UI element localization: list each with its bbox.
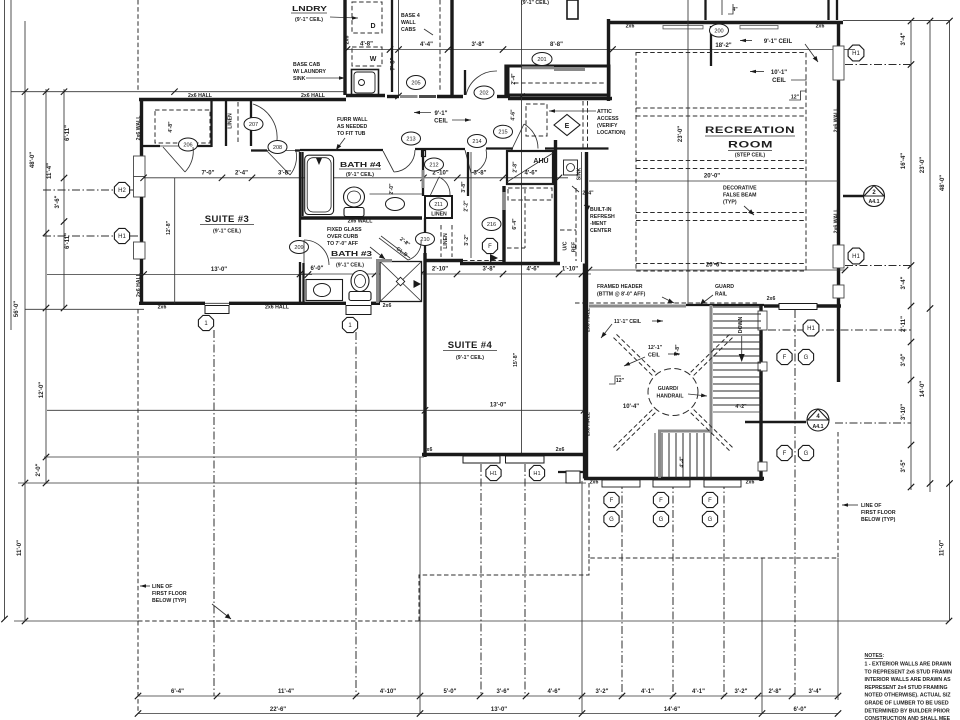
svg-text:FRAMED HEADER: FRAMED HEADER: [597, 284, 643, 290]
svg-text:2x6: 2x6: [424, 447, 433, 453]
svg-text:9'-1": 9'-1": [435, 111, 448, 117]
svg-text:1'-10": 1'-10": [562, 267, 578, 273]
svg-text:10'-1": 10'-1": [771, 70, 787, 76]
door 210 glass: [416, 233, 435, 246]
svg-text:LINE OF: LINE OF: [152, 584, 172, 590]
svg-text:TO 7'-0" AFF: TO 7'-0" AFF: [327, 241, 358, 247]
20-6 dim: [589, 269, 845, 271]
svg-text:2x6 HALL: 2x6 HALL: [586, 411, 592, 436]
svg-text:LINEN: LINEN: [443, 233, 449, 249]
grid line H1 left: [43, 235, 139, 237]
svg-text:2x6: 2x6: [746, 480, 755, 486]
svg-text:4'-6": 4'-6": [525, 171, 538, 177]
svg-text:201: 201: [537, 57, 546, 63]
laundry east wall: [391, 0, 393, 92]
bath3 vanity: [306, 280, 343, 301]
svg-text:2'-0": 2'-0": [389, 183, 395, 195]
svg-text:10'-4": 10'-4": [623, 404, 639, 410]
svg-text:OVER CURB: OVER CURB: [327, 234, 358, 240]
svg-text:REFRESH: REFRESH: [590, 214, 615, 220]
wall x497-508: [497, 95, 510, 98]
svg-text:BELOW (TYP): BELOW (TYP): [152, 598, 187, 604]
AHU closet: [507, 151, 553, 184]
bath3 dim chain y274: [300, 273, 591, 275]
WC stub: [422, 151, 426, 157]
door 215: [494, 125, 513, 138]
closet 206 south wall + door: [143, 145, 160, 147]
svg-text:20'-6": 20'-6": [706, 263, 722, 269]
svg-text:SINK: SINK: [577, 168, 583, 181]
svg-text:GUARD/: GUARD/: [658, 386, 679, 392]
svg-text:16'-4": 16'-4": [901, 153, 907, 169]
svg-text:4'-8": 4'-8": [360, 42, 373, 48]
bottom dim chain lower y714: [138, 713, 838, 715]
suite4/stair jog: [583, 457, 585, 479]
window right 2: [833, 245, 844, 268]
svg-text:TO REPRESENT 2x6 STUD FRAMIN: TO REPRESENT 2x6 STUD FRAMIN: [865, 669, 953, 675]
svg-text:RECREATION: RECREATION: [705, 125, 795, 136]
svg-text:FIRST FLOOR: FIRST FLOOR: [861, 510, 896, 516]
svg-text:H2: H2: [118, 188, 126, 194]
room202/closet wall: [504, 65, 506, 97]
svg-text:6'-0": 6'-0": [794, 707, 807, 713]
border line left: [4, 0, 6, 619]
door 214: [468, 135, 487, 148]
svg-text:202: 202: [479, 91, 488, 97]
dim vline x471: [470, 152, 472, 258]
svg-text:(9'-1" CEIL): (9'-1" CEIL): [295, 17, 323, 23]
door 209: [290, 241, 309, 254]
12'-8" inner dim: [174, 178, 176, 303]
tub: [301, 152, 303, 216]
svg-text:GRADE OF LUMBER TO BE USED: GRADE OF LUMBER TO BE USED: [865, 701, 949, 707]
svg-text:CONSTRUCTION AND SHALL MEE: CONSTRUCTION AND SHALL MEE: [865, 716, 951, 720]
svg-text:7'-0": 7'-0": [202, 171, 215, 177]
suite3 south wall: [139, 302, 205, 305]
svg-text:LINEN: LINEN: [228, 113, 234, 129]
svg-text:A4.1: A4.1: [813, 424, 824, 430]
svg-text:6'-11": 6'-11": [65, 233, 71, 249]
svg-text:F: F: [659, 498, 663, 504]
svg-text:11'-4": 11'-4": [278, 689, 294, 695]
closet 206: [155, 110, 210, 143]
svg-text:4'-10": 4'-10": [380, 689, 396, 695]
svg-text:TO FIT TUB: TO FIT TUB: [337, 131, 366, 137]
svg-text:9'-8": 9'-8": [675, 344, 681, 356]
svg-text:4'-4": 4'-4": [680, 456, 686, 468]
svg-text:13'-0": 13'-0": [490, 403, 506, 409]
H1 markers below suite4: [486, 465, 501, 480]
svg-text:200: 200: [714, 29, 723, 35]
svg-text:G: G: [609, 517, 614, 523]
door 212: [425, 158, 444, 171]
svg-text:210: 210: [420, 237, 429, 243]
suite4 south wall: [422, 453, 587, 456]
rec room ceiling dashed rect: [636, 53, 806, 272]
hall north wall y97.5-101: segments: [139, 98, 346, 101]
svg-text:216: 216: [487, 222, 496, 228]
stairs upper flight treads: [713, 306, 761, 308]
svg-text:F: F: [488, 244, 492, 250]
svg-text:2x6 WALL: 2x6 WALL: [348, 219, 374, 225]
svg-text:14'-6": 14'-6": [664, 707, 680, 713]
11'-4"/12'-0" dim line: [45, 89, 47, 484]
landing + lower flight: [658, 430, 711, 433]
56'-0" dim line: [10, 0, 12, 330]
svg-text:207: 207: [249, 122, 258, 128]
svg-text:WALL: WALL: [401, 20, 417, 26]
ceiling beams dashed: [636, 107, 806, 109]
svg-text:206: 206: [183, 143, 192, 149]
svg-text:HANDRAIL: HANDRAIL: [656, 394, 684, 400]
svg-text:(9'-1" CEIL): (9'-1" CEIL): [213, 229, 241, 235]
svg-text:ROOM: ROOM: [728, 140, 773, 151]
rec room west wall: [607, 19, 610, 101]
lobby walls around 210: [424, 218, 426, 258]
svg-text:BASE 4: BASE 4: [401, 13, 420, 19]
4/A4.1 triangle marker: [745, 421, 806, 424]
svg-text:3'-6": 3'-6": [55, 195, 61, 208]
suite3 east wall: [299, 152, 301, 237]
H1 grid line right top: [845, 64, 911, 66]
2/A4.1 triangle marker: [843, 195, 863, 198]
svg-text:H1: H1: [490, 471, 497, 477]
bath3 door threshold: [346, 306, 371, 315]
svg-text:212: 212: [429, 163, 438, 169]
svg-text:2x6 HALL: 2x6 HALL: [188, 93, 213, 99]
svg-text:211: 211: [434, 202, 442, 208]
grid dash-dot verticals bottom: [213, 330, 215, 696]
suite4 east wall: [583, 264, 586, 458]
right dim line x930 23'-0": [929, 21, 931, 492]
hall wall segment x252-300 with door 208: [251, 149, 267, 151]
svg-text:FALSE BEAM: FALSE BEAM: [723, 193, 756, 199]
svg-text:12'-8": 12'-8": [166, 220, 172, 235]
svg-text:A4.1: A4.1: [869, 199, 880, 205]
svg-text:H1: H1: [533, 471, 540, 477]
first floor below dashed vline x138: [137, 0, 139, 92]
flue at top: [567, 0, 578, 19]
closet 201 south wall already rect; hall wall to rec: [508, 97, 612, 100]
svg-text:DOWN: DOWN: [738, 317, 744, 334]
attic access dashed box: [526, 104, 547, 136]
svg-text:3'-10": 3'-10": [901, 404, 907, 420]
svg-text:4'-6": 4'-6": [548, 689, 561, 695]
window west B: [134, 242, 146, 259]
svg-text:213: 213: [406, 137, 415, 143]
svg-text:ACCESS: ACCESS: [597, 116, 619, 122]
svg-text:3'-2": 3'-2": [596, 689, 609, 695]
window west A: [134, 156, 146, 197]
right dim line x949 48'-0": [949, 21, 951, 621]
hall south wall to bath4: [300, 149, 383, 151]
svg-text:2x6 HALL: 2x6 HALL: [586, 307, 592, 332]
open-below X (dashed): [614, 338, 653, 376]
dryer D: [352, 2, 382, 33]
wall under sink: [346, 94, 385, 97]
svg-text:3'-2": 3'-2": [735, 689, 748, 695]
svg-text:LINEN: LINEN: [431, 212, 447, 218]
svg-text:14'-0": 14'-0": [920, 381, 926, 397]
svg-text:LNDRY: LNDRY: [292, 6, 327, 13]
svg-text:6'-0": 6'-0": [311, 266, 324, 272]
svg-text:48'-0": 48'-0": [940, 175, 946, 191]
svg-text:H1: H1: [118, 234, 126, 240]
svg-text:ATTIC: ATTIC: [597, 109, 612, 115]
door 213: [402, 132, 421, 145]
svg-text:GUARD: GUARD: [715, 284, 734, 290]
door threshold suite3: [205, 306, 229, 314]
svg-text:4'-6": 4'-6": [511, 109, 517, 121]
svg-text:23'-0": 23'-0": [920, 157, 926, 173]
wall x466-470 lobby east: [467, 152, 469, 196]
svg-text:LOCATION): LOCATION): [597, 130, 626, 136]
svg-text:4'-4": 4'-4": [420, 42, 433, 48]
svg-text:U/C: U/C: [563, 241, 569, 250]
extension line y457: [44, 456, 424, 458]
stair south wall: [584, 477, 764, 480]
svg-text:18'-2": 18'-2": [715, 43, 731, 49]
svg-text:(VERIFY: (VERIFY: [597, 123, 618, 129]
room 202 west wall: [450, 0, 453, 95]
rec room top wall: [608, 21, 843, 24]
stair hall west wall: [585, 152, 588, 479]
door 206 swing: [163, 147, 185, 172]
H1 grid line right mid: [845, 265, 911, 267]
svg-text:NOTED OTHERWISE). ACTUAL SIZ: NOTED OTHERWISE). ACTUAL SIZ: [865, 693, 952, 699]
svg-text:3'-8": 3'-8": [483, 267, 496, 273]
svg-text:CEIL: CEIL: [648, 353, 661, 359]
bath3 west wall: [302, 263, 304, 303]
shower: [380, 262, 422, 302]
svg-text:F: F: [610, 498, 614, 504]
svg-text:2x6 WALL: 2x6 WALL: [834, 107, 840, 133]
svg-text:2x6 HALL: 2x6 HALL: [265, 305, 290, 311]
bath4 vanity: [370, 193, 423, 195]
svg-text:2x6: 2x6: [345, 36, 351, 45]
door 208 swing: [267, 151, 290, 175]
svg-text:20'-0": 20'-0": [704, 174, 720, 180]
bath3 toilet: [351, 271, 369, 292]
E diamond: [554, 115, 580, 136]
svg-text:2x6 WALL: 2x6 WALL: [834, 208, 840, 234]
svg-text:BATH #4: BATH #4: [340, 162, 381, 169]
svg-text:RAIL: RAIL: [715, 292, 728, 298]
svg-text:2x6: 2x6: [816, 24, 825, 30]
svg-text:H1: H1: [852, 254, 860, 260]
F G pairs right of stairs: [777, 349, 792, 364]
extension verticals bottom: [419, 457, 421, 714]
svg-text:2'-8": 2'-8": [513, 161, 519, 173]
svg-text:SINK: SINK: [293, 76, 306, 82]
svg-text:3'-8": 3'-8": [278, 171, 291, 177]
svg-text:11'-0": 11'-0": [17, 540, 23, 556]
svg-text:6'-4": 6'-4": [512, 218, 518, 230]
svg-text:23'-0": 23'-0": [678, 126, 684, 142]
suite3 west wall: [140, 98, 143, 156]
svg-text:6'-4": 6'-4": [171, 689, 184, 695]
svg-text:CEIL: CEIL: [434, 119, 448, 125]
stair rail gray vertical: [710, 305, 713, 433]
rec south wall right of stairs: [764, 304, 779, 307]
extension line y309 left: [25, 308, 144, 310]
svg-text:215: 215: [498, 130, 507, 136]
svg-text:LINE OF: LINE OF: [861, 503, 881, 509]
svg-text:CEIL: CEIL: [772, 78, 786, 84]
suite4 west wall: [423, 253, 426, 457]
svg-text:5'-0": 5'-0": [444, 689, 457, 695]
svg-text:G: G: [659, 517, 664, 523]
svg-text:13'-0": 13'-0": [491, 707, 507, 713]
svg-text:3'-4": 3'-4": [809, 689, 822, 695]
svg-text:REF: REF: [572, 242, 578, 252]
svg-text:4'-6": 4'-6": [527, 267, 540, 273]
cab dashed line: [439, 0, 441, 90]
svg-text:E: E: [565, 123, 570, 130]
svg-text:-MENT: -MENT: [590, 221, 607, 227]
svg-text:205: 205: [411, 81, 420, 87]
extension/dim line y621 bottom: [14, 620, 139, 622]
svg-text:9'-1" CEIL: 9'-1" CEIL: [764, 39, 793, 45]
refreshment counter: [581, 152, 583, 262]
linen 211: [425, 196, 452, 218]
svg-text:12'-1": 12'-1": [648, 345, 663, 351]
svg-text:F: F: [708, 498, 712, 504]
suite4 north wall: [425, 259, 463, 262]
dim chain suite3 y177.8: [144, 177, 568, 179]
svg-text:BASE CAB: BASE CAB: [293, 62, 320, 68]
dashed opening suite4 north: [463, 260, 505, 262]
svg-text:G: G: [804, 355, 809, 361]
top dim chain y49: [345, 49, 855, 51]
svg-text:DECORATIVE: DECORATIVE: [723, 186, 757, 192]
svg-text:2x6: 2x6: [556, 447, 565, 453]
svg-text:3'-8": 3'-8": [472, 42, 485, 48]
svg-text:2'-0": 2'-0": [36, 463, 42, 476]
laundry sink: [352, 70, 379, 96]
svg-text:11'-0": 11'-0": [940, 540, 946, 556]
bath4 south wall: [300, 216, 422, 219]
bottom dim chain upper y696: [138, 695, 838, 697]
svg-text:208: 208: [273, 145, 282, 151]
windows in top wall: [663, 26, 703, 29]
F octagon flag: [482, 238, 497, 253]
svg-text:SUITE #3: SUITE #3: [205, 214, 249, 225]
svg-text:3'-8": 3'-8": [461, 181, 467, 193]
svg-text:(TYP): (TYP): [723, 200, 737, 206]
svg-text:4'-1": 4'-1": [692, 689, 705, 695]
door 211 swing: [430, 177, 439, 196]
svg-text:56'-0": 56'-0": [14, 301, 20, 317]
svg-text:22'-6": 22'-6": [270, 707, 286, 713]
48'-0" dim line left: [24, 21, 26, 621]
door 202 arc: [466, 71, 497, 95]
svg-text:209: 209: [294, 245, 303, 251]
door 207: [244, 118, 263, 131]
svg-text:2x6 WALL: 2x6 WALL: [136, 115, 142, 141]
right dim line x911: [910, 21, 912, 490]
216 room walls: [502, 186, 505, 264]
svg-text:11'-4": 11'-4": [47, 163, 53, 179]
svg-text:4'-8": 4'-8": [168, 121, 174, 133]
svg-text:BUILT-IN: BUILT-IN: [590, 207, 612, 213]
svg-text:1 - EXTERIOR WALLS ARE DRAWN: 1 - EXTERIOR WALLS ARE DRAWN: [865, 662, 952, 668]
svg-text:BATH #3: BATH #3: [331, 251, 372, 258]
svg-text:W/ LAUNDRY: W/ LAUNDRY: [293, 69, 326, 75]
svg-text:2x6 HALL: 2x6 HALL: [301, 93, 326, 99]
svg-text:AHU: AHU: [533, 158, 548, 165]
svg-text:48'-0": 48'-0": [30, 152, 36, 168]
svg-text:6'-11": 6'-11": [65, 125, 71, 141]
closet 201: [508, 66, 609, 95]
svg-text:CENTER: CENTER: [590, 228, 612, 234]
svg-text:4'-1": 4'-1": [641, 689, 654, 695]
shower curb gray: [376, 259, 379, 303]
door 200 jambs: [704, 0, 706, 20]
svg-text:CABS: CABS: [401, 27, 416, 33]
svg-text:2'-10": 2'-10": [432, 267, 448, 273]
svg-text:2x6: 2x6: [626, 24, 635, 30]
svg-text:2x6: 2x6: [158, 305, 167, 311]
svg-text:3'-2": 3'-2": [464, 234, 470, 246]
svg-text:8'-8": 8'-8": [550, 42, 563, 48]
svg-text:2'-4": 2'-4": [511, 73, 517, 85]
H1 grid near stairs: [768, 329, 911, 331]
svg-text:3'-4": 3'-4": [901, 32, 907, 45]
svg-text:214: 214: [472, 139, 481, 145]
svg-text:FIRST FLOOR: FIRST FLOOR: [152, 591, 187, 597]
window right 3: [833, 285, 844, 298]
stair east wall: [759, 305, 762, 481]
wall stub: [387, 95, 399, 98]
WC compartment wall: [422, 151, 424, 170]
4/A4.1 grid line: [835, 422, 911, 424]
svg-text:G: G: [804, 451, 809, 457]
svg-text:4'-2": 4'-2": [735, 404, 747, 410]
centerline x722: [721, 0, 723, 15]
grid thin line x521.5: [521, 0, 523, 457]
extension line y483: [18, 482, 586, 484]
svg-text:H1: H1: [852, 51, 860, 57]
svg-text:2x6: 2x6: [590, 480, 599, 486]
dashed chase lines: [582, 101, 584, 148]
F over G pairs below: [604, 492, 619, 507]
svg-text:2'-2": 2'-2": [464, 200, 470, 212]
svg-text:3'-5": 3'-5": [901, 459, 907, 472]
svg-text:15'-8": 15'-8": [513, 352, 519, 367]
svg-text:3'-6": 3'-6": [497, 689, 510, 695]
svg-text:3'-0": 3'-0": [901, 353, 907, 366]
rec east wall: [837, 22, 840, 382]
grid line H2: [43, 189, 139, 191]
svg-text:2'-4": 2'-4": [235, 171, 248, 177]
svg-text:W: W: [370, 56, 377, 63]
svg-text:2'-4": 2'-4": [582, 191, 594, 197]
washer W: [352, 47, 382, 66]
svg-text:FURR WALL: FURR WALL: [337, 117, 368, 123]
7'-8" vert dim line: [398, 0, 400, 97]
line of first floor below dashed outline: [138, 620, 419, 622]
svg-text:F: F: [783, 451, 787, 457]
svg-text:3'-4": 3'-4": [901, 276, 907, 289]
23-0 rotated dim + grid line x688: [687, 0, 689, 305]
svg-text:2'-8": 2'-8": [769, 689, 782, 695]
svg-text:FIXED GLASS: FIXED GLASS: [327, 227, 362, 233]
13'-0" dim suite3: [47, 274, 312, 276]
door 205 bypass doors: [400, 95, 418, 98]
svg-text:12": 12": [616, 378, 625, 384]
svg-text:D: D: [370, 23, 375, 30]
